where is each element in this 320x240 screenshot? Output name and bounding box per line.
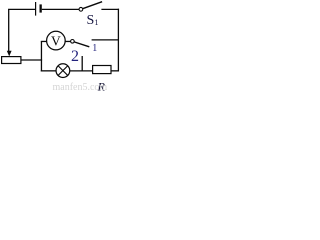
lamp L1 <box>56 64 70 78</box>
wire: bottom segment B (lamp to resistor) <box>70 70 93 72</box>
wire: top segment C (fixed contact to top-right corner) <box>101 8 119 10</box>
svg-text:V: V <box>51 33 61 48</box>
svg-text:2: 2 <box>71 48 79 65</box>
selector switch blade (open, down-right) <box>74 42 89 47</box>
switch S1 pivot circle <box>79 7 83 11</box>
wire: top segment A (left corner to battery positive plate) <box>8 8 36 10</box>
selector switch pivot circle <box>71 40 75 44</box>
wire: right vertical bus <box>117 9 119 72</box>
wire: contact 1 stub <box>92 39 119 41</box>
rheostat RP body <box>2 57 21 64</box>
wire: contact 2 drop (selector contact 2 down to bottom wire) <box>81 56 83 71</box>
rheostat RP arrowhead (slider) <box>7 51 12 57</box>
battery B1 (long plate) <box>35 2 37 16</box>
wire: left vertical bus <box>8 9 10 51</box>
svg-text:1: 1 <box>92 43 97 54</box>
wire: resistor to right bus <box>111 70 119 72</box>
wire: top segment B (battery to switch S1 pivot) <box>42 8 79 10</box>
switch S1 blade (open, up-right) <box>83 2 102 9</box>
wire: rheostat output (box right terminal to T junction) <box>21 59 42 61</box>
voltmeter V1 <box>47 31 66 50</box>
svg-text:1: 1 <box>95 18 99 27</box>
wire: voltmeter left stub <box>41 40 47 42</box>
battery B1 (short thick plate) <box>40 4 42 12</box>
wire: left branch vertical (voltmeter down to bottom wire) <box>40 41 42 71</box>
wire: voltmeter right stub (to selector pivot) <box>65 40 70 42</box>
resistor R1 body <box>93 66 111 74</box>
svg-text:S: S <box>87 13 95 28</box>
svg-text:manfen5.com: manfen5.com <box>53 82 108 91</box>
wire: bottom segment A (junction to lamp) <box>41 70 56 72</box>
